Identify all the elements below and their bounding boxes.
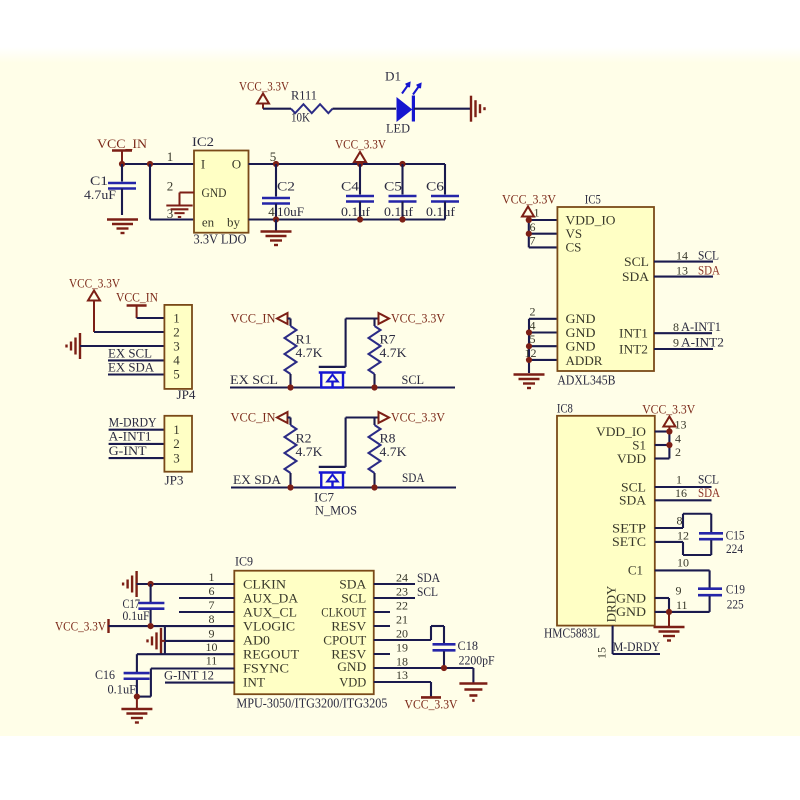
svg-text:C4: C4: [341, 179, 360, 194]
net label M-DRDY (JP3): [109, 415, 158, 430]
accelerometer IC5: [557, 192, 654, 388]
pin 22 label: [396, 599, 408, 613]
svg-text:M-DRDY: M-DRDY: [109, 415, 158, 430]
svg-text:CLKIN: CLKIN: [243, 576, 287, 591]
svg-text:EX SDA: EX SDA: [233, 472, 282, 487]
capacitor C2: [262, 164, 304, 220]
junction R8/SDA: [371, 484, 377, 490]
svg-text:VCC_3.3V: VCC_3.3V: [642, 402, 696, 417]
pin 1 label: [167, 149, 174, 164]
pin 10 label (IC8): [677, 556, 689, 570]
svg-text:19: 19: [396, 641, 408, 655]
svg-text:1: 1: [173, 310, 180, 325]
power VCC_IN (shifter2): [231, 410, 288, 425]
svg-text:G-INT 12: G-INT 12: [164, 668, 214, 683]
svg-text:15: 15: [595, 647, 609, 659]
wire IC5 SCL: [654, 261, 713, 263]
net label G-INT (JP3): [109, 443, 147, 458]
wire IC5 INT1: [654, 332, 712, 334]
svg-text:VCC_3.3V: VCC_3.3V: [391, 410, 446, 425]
net label SCL (IC5): [698, 248, 719, 263]
transistor Q1 (NMOS half): [319, 367, 346, 388]
svg-text:13: 13: [676, 264, 688, 278]
resistor R8: [369, 418, 408, 488]
power VCC_3.3V (rail): [335, 137, 387, 165]
svg-text:SETC: SETC: [612, 534, 646, 549]
svg-text:9: 9: [673, 336, 679, 350]
junction IC5 pin1: [526, 217, 532, 223]
pin 19 label: [396, 641, 408, 655]
svg-text:AUX_DA: AUX_DA: [243, 590, 299, 605]
power VCC_3.3V (VLOGIC): [55, 618, 109, 633]
wire D1 to ground: [414, 108, 472, 110]
junction C4 top: [357, 161, 363, 167]
junction VCC_IN/en branch: [147, 161, 153, 167]
svg-text:11: 11: [206, 654, 218, 668]
power VCC_IN (shifter1): [231, 311, 288, 326]
svg-text:1: 1: [534, 206, 540, 220]
svg-text:1: 1: [209, 570, 215, 584]
wire JP4 pin2: [94, 331, 164, 333]
svg-text:2: 2: [173, 436, 180, 451]
svg-text:C1: C1: [628, 563, 643, 578]
pin 9 label (IC9): [209, 627, 215, 641]
wire IC5 SDA: [654, 276, 713, 278]
ground (IC9 pin1): [123, 571, 137, 597]
svg-text:5: 5: [173, 366, 180, 381]
svg-text:1: 1: [676, 473, 682, 487]
svg-text:M-DRDY: M-DRDY: [613, 639, 661, 654]
wire IC9 pin8 VLOGIC: [109, 625, 235, 627]
svg-text:VCC_3.3V: VCC_3.3V: [335, 137, 387, 152]
wire VCC_3.3V to R111: [263, 108, 291, 110]
svg-text:FSYNC: FSYNC: [243, 660, 289, 675]
svg-text:VCC_3.3V: VCC_3.3V: [55, 618, 107, 633]
svg-text:4.7K: 4.7K: [296, 444, 324, 459]
net label EX_SDA (shifter2): [233, 472, 282, 487]
svg-text:0.1uf: 0.1uf: [341, 204, 371, 219]
resistor R1: [285, 326, 324, 388]
svg-text:GND: GND: [202, 185, 227, 200]
net label A-INT2: [681, 335, 724, 350]
junction IC8 pin13: [666, 428, 672, 434]
svg-text:0.1uf: 0.1uf: [426, 204, 456, 219]
capacitor C5: [384, 164, 417, 220]
pin 3 label: [167, 206, 174, 221]
wire IC8 SDA: [655, 499, 712, 501]
svg-text:7: 7: [530, 234, 536, 248]
wire C19 bottom: [709, 596, 711, 612]
svg-text:RESV: RESV: [331, 618, 367, 633]
svg-text:EX SDA: EX SDA: [108, 360, 155, 375]
pin 5 label (IC5): [530, 332, 536, 346]
pin 9 label (IC8): [676, 584, 682, 598]
svg-text:16: 16: [675, 486, 687, 500]
pin 11 label (IC9): [206, 654, 218, 668]
net label SDA (IC5): [698, 263, 721, 278]
pin 18 label: [396, 655, 408, 669]
wire C2 to ground: [275, 220, 277, 232]
svg-text:REGOUT: REGOUT: [243, 646, 299, 661]
svg-text:20: 20: [396, 627, 408, 641]
junction C17 bottom: [148, 623, 154, 629]
power VCC_IN (JP4): [116, 290, 159, 319]
svg-text:SDA: SDA: [698, 485, 721, 500]
pin 21 label: [396, 613, 408, 627]
svg-text:INT: INT: [243, 674, 265, 689]
svg-text:3: 3: [173, 338, 180, 353]
net label SCL (IC8): [698, 472, 719, 487]
svg-text:VCC_IN: VCC_IN: [231, 311, 277, 326]
pin 2 GND wire: [180, 193, 195, 206]
wire IC8 C1: [655, 570, 710, 587]
junction IC5 gnd2: [526, 343, 532, 349]
pin 24 label: [396, 571, 408, 585]
svg-text:4.7K: 4.7K: [296, 345, 324, 360]
power VCC_3.3V (IC5): [502, 192, 557, 221]
net label EX_SDA (JP4): [108, 360, 155, 375]
net label EX_SCL (shifter1): [230, 372, 278, 387]
pin 13 label (IC9): [396, 668, 408, 682]
ground (C2): [261, 232, 292, 246]
wire IC9 pin7 stub: [179, 611, 234, 613]
svg-text:12: 12: [677, 529, 689, 543]
svg-text:A-INT1: A-INT1: [109, 429, 152, 444]
wire VCC_IN to R2: [288, 418, 291, 426]
pin 4 label: [268, 204, 275, 219]
svg-text:INT1: INT1: [619, 326, 648, 341]
pin 8 label (IC9): [209, 612, 215, 626]
junction R7/SCL: [371, 384, 377, 390]
wire IC9 pin19 stub: [374, 653, 390, 655]
wire R111 to D1: [333, 108, 397, 110]
wire IC9 pin10: [137, 654, 234, 672]
wire C18 bottom: [443, 651, 445, 668]
ground (IC5): [514, 375, 545, 389]
junction C4 bottom: [357, 216, 363, 222]
pin 7 label (IC9): [209, 598, 215, 612]
power VCC_3.3V (shifter1): [379, 311, 446, 326]
pin 8 label (IC5): [673, 320, 679, 334]
wire EX_SCL / SCL: [230, 386, 455, 388]
capacitor C17: [123, 584, 165, 626]
wire IC5 power feed: [529, 220, 558, 247]
junction IC5 pin6: [526, 231, 532, 237]
svg-text:4: 4: [268, 204, 275, 219]
pin 11 label (IC8): [676, 598, 688, 612]
pin 9 label (IC5): [673, 336, 679, 350]
pin 2 label: [167, 179, 174, 194]
svg-text:SCL: SCL: [624, 254, 649, 269]
svg-text:SDA: SDA: [698, 263, 721, 278]
net label SCL (IC9): [417, 584, 438, 599]
wire IC8 SETC loop: [655, 540, 711, 555]
svg-text:VCC_3.3V: VCC_3.3V: [69, 276, 121, 291]
wire JP3 pin3: [109, 457, 165, 459]
wire IC8 SETP loop: [655, 514, 711, 533]
ground (LED cathode): [471, 96, 485, 122]
net label EX_SCL (JP4): [108, 346, 152, 361]
capacitor C6: [426, 164, 459, 220]
svg-text:C6: C6: [426, 179, 445, 194]
ground (IC8): [654, 627, 685, 641]
net label A-INT1: [681, 319, 721, 334]
svg-text:4.7K: 4.7K: [380, 444, 408, 459]
pin 4 label (IC8): [675, 432, 681, 446]
pin 2 label (IC5): [530, 305, 536, 319]
capacitor C19: [698, 582, 745, 612]
pin 1 label (IC5): [534, 206, 540, 220]
net label G-INT (IC9): [164, 668, 214, 683]
svg-text:23: 23: [396, 585, 408, 599]
svg-text:SCL: SCL: [417, 584, 438, 599]
magnetometer IC8: [544, 400, 655, 640]
net label SDA (IC9): [417, 570, 441, 585]
svg-text:SDA: SDA: [339, 576, 367, 591]
wire IC9 pin9/10 tie: [164, 626, 166, 654]
capacitor C4: [341, 164, 374, 220]
svg-text:SETP: SETP: [612, 520, 646, 535]
pin 20 label: [396, 627, 408, 641]
svg-text:8: 8: [677, 514, 683, 528]
svg-text:12: 12: [525, 346, 537, 360]
svg-text:VDD: VDD: [339, 675, 366, 690]
net label M-DRDY (IC8): [613, 639, 661, 654]
wire IC9 pin6 stub: [179, 597, 234, 599]
svg-text:JP4: JP4: [177, 388, 197, 402]
wire IC9 pin1: [137, 583, 235, 585]
svg-text:2: 2: [675, 445, 681, 459]
wire IC9 VDD: [374, 682, 431, 697]
junction C2 bottom: [273, 216, 279, 222]
svg-text:13: 13: [396, 668, 408, 682]
junction C5 top: [399, 161, 405, 167]
svg-text:SCL: SCL: [402, 372, 425, 387]
svg-text:A-INT2: A-INT2: [681, 335, 724, 350]
LED D1: [385, 69, 421, 136]
resistor R2: [285, 425, 324, 488]
svg-text:SDA: SDA: [402, 470, 425, 485]
pin 10 label (IC9): [206, 640, 218, 654]
svg-text:N_MOS: N_MOS: [315, 503, 357, 518]
svg-text:VDD: VDD: [617, 451, 646, 466]
wire en branch: [150, 164, 194, 220]
ground (IC2 pin2): [166, 206, 192, 217]
pin 4 label (IC5): [530, 319, 536, 333]
svg-text:13: 13: [675, 418, 687, 432]
junction C2 top: [273, 161, 279, 167]
svg-text:4.7K: 4.7K: [380, 345, 408, 360]
svg-text:10uF: 10uF: [277, 204, 304, 219]
svg-text:7: 7: [209, 598, 215, 612]
svg-text:VCC_3.3V: VCC_3.3V: [502, 192, 557, 207]
svg-text:R111: R111: [291, 88, 317, 103]
svg-text:3: 3: [167, 206, 174, 221]
svg-text:VCC_3.3V: VCC_3.3V: [239, 79, 290, 94]
svg-text:SDA: SDA: [619, 493, 647, 508]
svg-text:VCC_IN: VCC_IN: [97, 136, 148, 151]
net label A-INT1 (JP3): [109, 429, 152, 444]
capacitor C15: [699, 528, 745, 557]
wire bottom rail (by/gnd): [249, 218, 446, 220]
svg-text:24: 24: [396, 571, 408, 585]
svg-text:9: 9: [209, 627, 215, 641]
wire IC9 pin11 FSYNC: [137, 669, 234, 697]
svg-text:AD0: AD0: [243, 632, 270, 647]
wire IC9 SCL: [374, 597, 415, 599]
pin 16 label (IC8): [675, 486, 687, 500]
junction IC5 gnd3: [526, 357, 532, 363]
pin 6 label (IC5): [530, 220, 536, 234]
wire JP3 pin2: [109, 443, 165, 445]
svg-text:SDA: SDA: [417, 570, 441, 585]
pin 14 label: [676, 249, 688, 263]
svg-text:4: 4: [530, 319, 536, 333]
svg-text:0.1uF: 0.1uF: [108, 682, 137, 697]
svg-text:IC9: IC9: [235, 554, 253, 569]
pin 5 label: [270, 149, 277, 164]
wire IC9 pin22 stub: [374, 611, 390, 613]
svg-text:G-INT: G-INT: [109, 443, 147, 458]
svg-text:224: 224: [726, 541, 743, 556]
junction C5 bottom: [399, 216, 405, 222]
wire EX_SDA / SDA: [231, 486, 456, 488]
svg-text:8: 8: [673, 320, 679, 334]
svg-text:IC8: IC8: [557, 400, 573, 415]
junction IC8 pin4: [666, 442, 672, 448]
svg-text:C2: C2: [277, 179, 295, 194]
wire IC9 pin12 INT: [165, 682, 234, 684]
junction C17 top: [148, 581, 154, 587]
svg-text:SDA: SDA: [622, 269, 650, 284]
wire IC9 pin21 stub: [374, 625, 390, 627]
svg-text:A-INT1: A-INT1: [681, 319, 721, 334]
pin 6 label (IC9): [209, 584, 215, 598]
svg-text:22: 22: [396, 599, 408, 613]
svg-text:C19: C19: [726, 582, 745, 597]
svg-text:8: 8: [209, 612, 215, 626]
transistor IC7 N_MOS: [314, 467, 357, 518]
svg-text:I: I: [201, 156, 205, 171]
pin 13 label (IC8): [675, 418, 687, 432]
svg-text:3.3V LDO: 3.3V LDO: [194, 232, 247, 247]
svg-text:10: 10: [677, 556, 689, 570]
junction VCC_IN/C1: [119, 161, 125, 167]
power VCC_IN (input): [97, 136, 148, 164]
svg-text:C5: C5: [384, 179, 402, 194]
svg-text:18: 18: [396, 655, 408, 669]
svg-text:2200pF: 2200pF: [459, 653, 495, 668]
svg-text:4.7uF: 4.7uF: [84, 187, 116, 202]
pin 8 label (IC8): [677, 514, 683, 528]
junction R2/EX_SDA: [287, 484, 293, 490]
capacitor C18: [433, 638, 495, 668]
svg-text:EX SCL: EX SCL: [230, 372, 278, 387]
power VCC_3.3V (IC8): [642, 402, 696, 432]
svg-text:IC2: IC2: [192, 134, 214, 149]
svg-text:O: O: [232, 156, 241, 171]
wire IC8 power feed: [655, 432, 670, 459]
power VCC_3.3V (shifter2): [379, 410, 446, 425]
svg-text:VCC_3.3V: VCC_3.3V: [405, 697, 459, 712]
svg-text:21: 21: [396, 613, 408, 627]
svg-text:CS: CS: [566, 240, 582, 255]
svg-text:MPU-3050/ITG3200/ITG3205: MPU-3050/ITG3200/ITG3205: [236, 696, 387, 711]
svg-text:10K: 10K: [291, 110, 311, 125]
wire JP4 pin1: [137, 317, 165, 319]
svg-text:JP3: JP3: [165, 474, 184, 488]
svg-text:GND: GND: [616, 604, 646, 619]
gyroscope IC9: [234, 554, 387, 711]
svg-text:DRDY: DRDY: [604, 585, 619, 622]
wire gnd stem (IC8): [668, 612, 670, 626]
svg-text:6: 6: [530, 220, 536, 234]
ground (IC9 pin9): [148, 628, 165, 654]
svg-text:GND: GND: [616, 590, 646, 605]
junction C16/FSYNC gnd: [134, 694, 140, 700]
net label SDA (IC8): [698, 485, 721, 500]
wire gate rail 2: [346, 418, 379, 467]
svg-text:6: 6: [209, 584, 215, 598]
connector JP3: [164, 416, 192, 488]
svg-text:225: 225: [727, 597, 744, 612]
svg-text:SCL: SCL: [698, 248, 719, 263]
svg-text:C1: C1: [90, 173, 108, 188]
svg-text:CPOUT: CPOUT: [323, 632, 366, 647]
pin 1 label (IC9): [209, 570, 215, 584]
wire IC8 SCL: [655, 486, 712, 488]
connector JP4: [164, 305, 196, 402]
power VCC_3.3V (LED pullup): [239, 79, 290, 109]
svg-text:C16: C16: [95, 667, 115, 682]
svg-text:1: 1: [173, 422, 180, 437]
svg-text:CLKOUT: CLKOUT: [321, 604, 366, 619]
resistor R111: [291, 88, 333, 125]
wire 3.3V output rail: [249, 163, 446, 165]
svg-text:GND: GND: [566, 339, 596, 354]
wire VCC_IN to R1: [288, 319, 291, 327]
svg-text:SCL: SCL: [341, 590, 366, 605]
pin 12 label (IC5): [525, 346, 537, 360]
svg-text:14: 14: [676, 249, 688, 263]
svg-text:3: 3: [173, 450, 180, 465]
capacitor C1: [84, 164, 136, 215]
pin 13 label (IC5): [676, 264, 688, 278]
svg-text:4: 4: [675, 432, 681, 446]
svg-text:2: 2: [173, 324, 180, 339]
pin 2 label (IC8): [675, 445, 681, 459]
svg-text:C18: C18: [458, 638, 479, 653]
wire IC9 GND: [374, 668, 474, 683]
wire VCC_IN rail: [122, 163, 194, 165]
svg-text:VCC_3.3V: VCC_3.3V: [391, 311, 446, 326]
regulator IC2: [192, 134, 249, 247]
pin 23 label: [396, 585, 408, 599]
svg-text:9: 9: [676, 584, 682, 598]
junction IC8 gnd: [666, 609, 672, 615]
svg-text:ADXL345B: ADXL345B: [557, 373, 615, 388]
wire IC5 INT2: [654, 348, 713, 350]
svg-text:ADDR: ADDR: [566, 353, 603, 368]
svg-text:VLOGIC: VLOGIC: [243, 618, 295, 633]
wire JP4 pin4: [108, 359, 164, 361]
pin 12 label (IC8): [677, 529, 689, 543]
wire gnd stem (C16): [136, 697, 138, 708]
svg-text:1: 1: [167, 149, 174, 164]
svg-text:VCC_IN: VCC_IN: [231, 410, 277, 425]
svg-text:en: en: [202, 214, 215, 229]
svg-text:10: 10: [206, 640, 218, 654]
